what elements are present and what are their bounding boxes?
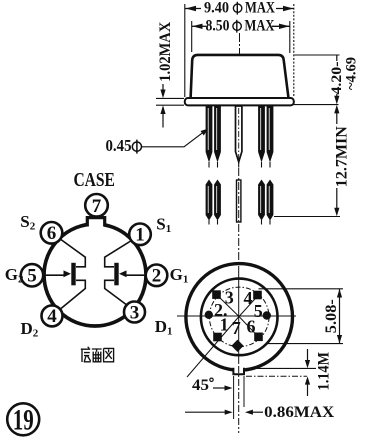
dimension 12.7MIN line — [334, 105, 339, 114]
pin 7 pad (diamond) — [231, 340, 243, 352]
svg-text:6: 6 — [247, 316, 256, 336]
svg-text:19: 19 — [13, 403, 34, 436]
wire: drain of left FET to pin 4 — [60, 280, 86, 309]
dimension 1.02 line upper with down arrow — [162, 84, 164, 93]
dimension 4.20-4.69 line — [336, 56, 338, 62]
inner circle of can — [201, 279, 278, 356]
svg-text:CASE: CASE — [73, 170, 115, 191]
extension line can-top right — [295, 54, 340, 56]
kanji 3 (drawing) — [104, 348, 114, 361]
svg-text:1: 1 — [220, 315, 229, 335]
extension line left (body top) — [191, 21, 193, 52]
pin 5 pad (dot) — [263, 311, 271, 319]
extension line right (body top) — [289, 21, 291, 53]
pin 2 circle — [146, 265, 168, 287]
pin 5 circle — [21, 264, 43, 286]
dimension 9.40 left arrow — [186, 6, 197, 11]
crosshair horizontal centerline — [177, 315, 296, 317]
dimension 1.02 line lower with up arrow — [160, 105, 165, 114]
dimension 8.50phiMAX line — [192, 25, 290, 27]
pin 6 pad (square) — [254, 333, 263, 342]
diagonal centerline to pin 4 — [239, 295, 259, 317]
svg-text:1.02MAX: 1.02MAX — [157, 21, 174, 81]
lead 1 lower segment — [206, 180, 213, 225]
bolt circle (dash-dot) — [209, 287, 269, 347]
case tab — [87, 218, 104, 227]
wire: source of right FET to pin 1 — [105, 241, 132, 267]
lead 1 upper segment — [206, 106, 213, 168]
page number badge 19 — [7, 403, 39, 435]
diagonal 45deg line through pin 1 extended outside circle — [187, 317, 239, 378]
lead 2 upper segment — [214, 106, 221, 168]
can flange (base plate) — [185, 98, 294, 105]
lead 4 lower segment — [258, 180, 265, 225]
extension line tab top level — [246, 367, 316, 369]
svg-text:2: 2 — [152, 266, 162, 287]
svg-text:4: 4 — [47, 306, 57, 327]
extension line lead ends — [274, 216, 340, 218]
pin 4 pad (square) — [253, 291, 262, 300]
outer circle of can — [186, 264, 293, 371]
lead 4 upper segment — [258, 106, 265, 168]
pin 1 pad (square) — [213, 333, 222, 342]
extension line right dotted (flange edge) — [293, 4, 295, 97]
extension line left (flange edge) — [184, 4, 186, 97]
index tab at bottom of can — [233, 364, 244, 375]
pin 3 pad (square) — [212, 290, 221, 299]
svg-text:45: 45 — [192, 377, 209, 394]
wire: centerline between top view and bottom view — [238, 168, 240, 263]
can body outline — [191, 55, 289, 98]
svg-text:MAX: MAX — [245, 18, 275, 35]
wire: source of left FET to pin 6 — [60, 239, 86, 267]
pin 6 circle — [41, 222, 63, 244]
pin 7 circle — [85, 194, 108, 217]
pin 1 circle — [129, 224, 151, 246]
kanji 2 (face) — [92, 349, 102, 362]
dimension 1.14M line with outside arrows — [307, 349, 309, 364]
wire: centerline below bottom view — [238, 366, 240, 433]
gap in circle for tab — [88, 218, 104, 228]
label bottom-view kanji (drawn strokes) — [81, 347, 114, 362]
extension line pins 3-4 level — [259, 288, 344, 290]
svg-text:7: 7 — [92, 196, 102, 217]
svg-text:1: 1 — [135, 225, 145, 246]
package circle — [44, 224, 146, 326]
lead 5 upper segment — [267, 106, 274, 168]
svg-text:MAX: MAX — [245, 0, 275, 17]
svg-text:0.45: 0.45 — [106, 136, 132, 155]
svg-text:8.50: 8.50 — [206, 18, 230, 35]
diagonal centerline to pin 6 — [239, 317, 259, 338]
tab edge lines extended down — [233, 376, 235, 419]
wire: drain of right FET to pin 3 — [105, 280, 128, 305]
dimension 9.40 right arrow — [283, 6, 294, 11]
lead 3 (center) lower segment outlined — [237, 180, 241, 222]
dimension 5.08 line — [339, 289, 341, 344]
transistor Q2 (right JFET) channel bar — [114, 263, 118, 286]
svg-text:3: 3 — [130, 302, 140, 323]
45deg arrow — [213, 387, 228, 389]
transistor Q1 (left JFET) channel bar — [71, 263, 75, 286]
extension line flange bottom left — [156, 104, 184, 106]
dimension 9.40phiMAX line — [185, 8, 294, 10]
pin 3 circle — [124, 302, 145, 323]
extension line pin 7 level — [266, 343, 344, 345]
svg-text:12.7MIN: 12.7MIN — [334, 126, 351, 187]
svg-text:7: 7 — [232, 318, 241, 338]
transistor Q2 gate arrow — [119, 270, 127, 277]
svg-text:4: 4 — [244, 288, 253, 308]
dimension 8.50 right arrow — [279, 24, 290, 29]
wire: vertical centerline of package — [239, 33, 241, 112]
extension line tab bottom level (dash-dot) — [246, 375, 307, 377]
diagonal centerline to pin 3 — [217, 295, 240, 317]
extension line flange top left — [156, 97, 184, 99]
wire: gate of left FET to pin 5 — [43, 274, 66, 276]
transistor Q1 gate arrow — [64, 270, 72, 277]
kanji 1 (bottom) — [81, 347, 91, 362]
lead 5 lower segment — [267, 180, 274, 225]
svg-text:0.86MAX: 0.86MAX — [264, 404, 334, 421]
dimension 8.50 left arrow — [192, 24, 202, 29]
leader line for 0.45phi — [142, 130, 207, 147]
crosshair vertical centerline — [238, 266, 240, 366]
pin 4 circle — [42, 305, 63, 326]
lead 3 (center) upper segment (outlined, on centerline) — [236, 106, 242, 168]
svg-text:6: 6 — [47, 223, 57, 244]
extension line flange-bottom right — [294, 104, 339, 106]
lead 2 lower segment — [214, 180, 221, 225]
pin 2 pad (dot) — [205, 311, 213, 319]
svg-text:5.08-: 5.08- — [323, 299, 340, 333]
svg-text:5: 5 — [27, 266, 37, 287]
wire: gate of right FET to pin 2 — [124, 274, 146, 276]
dimension 0.86MAX arrows — [185, 411, 228, 413]
svg-text:9.40: 9.40 — [204, 0, 229, 17]
svg-text:~4.69: ~4.69 — [344, 57, 360, 90]
svg-text:1.14M: 1.14M — [316, 352, 333, 391]
